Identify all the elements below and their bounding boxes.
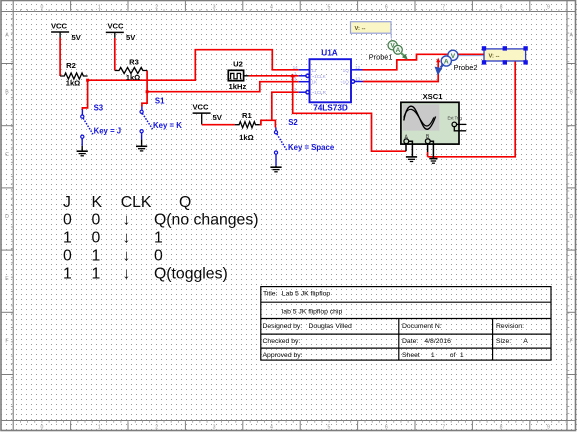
svg-text:V: --: V: -- xyxy=(355,26,366,32)
svg-text:S2: S2 xyxy=(288,118,298,127)
svg-text:VCC: VCC xyxy=(107,21,124,30)
wire VCC3 to R1 xyxy=(202,124,235,126)
svg-text:7: 7 xyxy=(442,5,445,11)
probe Probe1 icon xyxy=(369,41,408,62)
svg-text:0: 0 xyxy=(63,212,72,229)
svg-text:1kΩ: 1kΩ xyxy=(66,79,81,88)
svg-text:of: of xyxy=(450,352,456,359)
svg-text:Douglas Villed: Douglas Villed xyxy=(309,323,353,330)
svg-text:1K: 1K xyxy=(312,80,319,85)
svg-text:4: 4 xyxy=(270,5,273,11)
wire R2 junction down to S3 xyxy=(82,80,87,109)
svg-text:7: 7 xyxy=(442,424,445,430)
svg-text:0: 0 xyxy=(92,230,101,247)
svg-text:R3: R3 xyxy=(129,57,139,66)
svg-text:Sheet: Sheet xyxy=(402,352,420,359)
svg-text:14: 14 xyxy=(293,65,299,70)
svg-text:A: A xyxy=(5,33,9,39)
svg-text:3: 3 xyxy=(213,424,216,430)
svg-text:5V: 5V xyxy=(126,33,136,42)
svg-text:1: 1 xyxy=(98,424,101,430)
svg-text:A: A xyxy=(569,33,573,39)
svg-text:V: --: V: -- xyxy=(489,53,500,59)
svg-text:~1Q: ~1Q xyxy=(340,80,349,85)
switch S1 xyxy=(140,97,182,133)
scope B- to ground xyxy=(430,141,433,158)
resistor R3 xyxy=(115,57,147,81)
svg-text:Revision:: Revision: xyxy=(496,323,524,330)
wire J net: R2 junction to chip pin 1J xyxy=(88,50,299,80)
probe Probe2 readout box (selected) xyxy=(482,46,528,64)
svg-text:E: E xyxy=(5,276,9,282)
scope A- to ground xyxy=(409,141,413,157)
svg-text:1: 1 xyxy=(92,248,101,265)
probe Probe1 readout box xyxy=(351,22,392,39)
svg-text:1: 1 xyxy=(154,230,163,247)
svg-text:Ext Trig: Ext Trig xyxy=(448,116,463,121)
svg-text:Probe1: Probe1 xyxy=(369,52,393,61)
svg-text:1: 1 xyxy=(294,71,297,76)
svg-text:U2: U2 xyxy=(233,59,243,68)
svg-text:~1CLR: ~1CLR xyxy=(312,90,327,95)
wire K net: R3 down through junction to S1 xyxy=(142,70,147,106)
svg-text:0: 0 xyxy=(92,212,101,229)
switch S2 xyxy=(274,118,334,154)
svg-text:Q: Q xyxy=(179,194,191,211)
wire S3 to ground xyxy=(81,138,83,146)
svg-text:K: K xyxy=(92,194,103,211)
switch S3 xyxy=(81,104,121,139)
svg-text:F: F xyxy=(5,338,8,344)
svg-text:D: D xyxy=(569,214,573,220)
svg-text:S3: S3 xyxy=(94,104,104,113)
svg-text:~1CLK: ~1CLK xyxy=(312,74,327,79)
svg-text:S1: S1 xyxy=(155,97,165,106)
svg-text:XSC1: XSC1 xyxy=(423,92,444,101)
svg-text:lab 5 JK flipflop chip: lab 5 JK flipflop chip xyxy=(282,308,343,315)
ground G5 (scope B) xyxy=(429,159,437,164)
svg-text:E: E xyxy=(569,276,573,282)
svg-text:6: 6 xyxy=(385,424,388,430)
probe Probe2 icon xyxy=(435,50,484,75)
svg-text:5V: 5V xyxy=(72,33,82,42)
svg-text:↓: ↓ xyxy=(123,248,131,265)
svg-text:8: 8 xyxy=(500,424,503,430)
op chip U1A 74LS73D xyxy=(293,49,363,113)
svg-text:1J: 1J xyxy=(312,68,317,73)
svg-text:8: 8 xyxy=(500,5,503,11)
svg-text:Title:: Title: xyxy=(263,291,278,298)
truth table text xyxy=(63,194,259,283)
wire ~1Q net with dangling arrow xyxy=(363,62,438,82)
ground G4 (scope A) xyxy=(406,157,417,162)
svg-text:1: 1 xyxy=(63,230,72,247)
svg-text:R1: R1 xyxy=(242,111,252,120)
svg-text:Q(toggles): Q(toggles) xyxy=(154,265,228,282)
oscilloscope XSC1 xyxy=(401,92,466,144)
svg-text:3: 3 xyxy=(294,77,297,82)
svg-text:2: 2 xyxy=(155,424,158,430)
svg-text:Designed by:: Designed by: xyxy=(263,323,303,330)
svg-text:J: J xyxy=(63,194,71,211)
junction dot R2/J/S3 xyxy=(86,79,89,82)
svg-text:↓: ↓ xyxy=(123,212,131,229)
svg-text:A: A xyxy=(396,47,401,54)
svg-text:A: A xyxy=(444,58,449,65)
svg-text:5V: 5V xyxy=(213,113,223,122)
svg-text:Probe2: Probe2 xyxy=(454,63,478,72)
svg-text:0: 0 xyxy=(63,248,72,265)
svg-text:Key = J: Key = J xyxy=(94,127,122,136)
clock source U2 xyxy=(228,59,249,91)
svg-text:4/8/2016: 4/8/2016 xyxy=(424,338,451,345)
svg-text:Date:: Date: xyxy=(402,338,418,345)
svg-text:0: 0 xyxy=(40,424,43,430)
svg-text:B: B xyxy=(569,90,573,96)
svg-text:6: 6 xyxy=(385,5,388,11)
svg-text:A: A xyxy=(523,338,528,345)
scope A+ stub to CLK wire xyxy=(405,144,407,152)
svg-text:12: 12 xyxy=(355,65,361,70)
CLK tap arrow xyxy=(291,74,295,78)
ground G2 (S1) xyxy=(136,146,147,151)
svg-text:1kΩ: 1kΩ xyxy=(239,133,254,142)
svg-text:U1A: U1A xyxy=(321,49,337,58)
wire CLR net: chip pin 2 to R1/S2 node xyxy=(272,92,299,120)
svg-text:5: 5 xyxy=(327,5,330,11)
svg-text:1Q: 1Q xyxy=(343,68,350,73)
svg-text:1: 1 xyxy=(431,352,435,359)
svg-text:Document N:: Document N: xyxy=(402,323,442,330)
power VCC3 xyxy=(192,103,222,125)
svg-text:4: 4 xyxy=(270,424,273,430)
svg-text:Size:: Size: xyxy=(496,338,511,345)
scope B+ stub to Q wire xyxy=(427,144,429,152)
svg-text:74LS73D: 74LS73D xyxy=(313,104,348,113)
svg-text:V: V xyxy=(451,53,456,60)
svg-text:2: 2 xyxy=(155,5,158,11)
svg-text:2: 2 xyxy=(294,87,297,92)
svg-text:9: 9 xyxy=(547,424,550,430)
ground G1 (S3) xyxy=(77,151,88,156)
svg-text:↓: ↓ xyxy=(123,230,131,247)
svg-text:C: C xyxy=(569,152,573,158)
svg-text:1: 1 xyxy=(63,265,72,282)
svg-text:1kΩ: 1kΩ xyxy=(126,73,141,82)
svg-text:Key = Space: Key = Space xyxy=(288,143,335,152)
svg-text:Lab 5 JK flipflop: Lab 5 JK flipflop xyxy=(282,291,331,298)
svg-text:Q(no changes): Q(no changes) xyxy=(154,212,259,229)
wire VCC1 to R2 xyxy=(59,38,61,77)
power VCC2 xyxy=(106,21,136,42)
junction dot R3/K/S1 xyxy=(146,90,149,93)
svg-text:1kHz: 1kHz xyxy=(229,82,247,91)
wire K net: junction to chip pin 1K xyxy=(147,82,299,92)
svg-text:9: 9 xyxy=(547,5,550,11)
wire U2 output to chip CLK pin xyxy=(249,75,299,77)
wire VCC2 to R3 xyxy=(114,38,116,71)
svg-text:5: 5 xyxy=(327,424,330,430)
svg-text:C: C xyxy=(5,152,9,158)
ground G3 (S2) xyxy=(270,167,281,172)
svg-text:0: 0 xyxy=(40,5,43,11)
svg-text:1: 1 xyxy=(460,352,464,359)
wire CLK tap down to scope A xyxy=(293,77,406,151)
svg-text:↓: ↓ xyxy=(123,265,131,282)
svg-text:Approved by:: Approved by: xyxy=(263,352,303,359)
svg-text:R2: R2 xyxy=(66,61,76,70)
svg-text:Checked by:: Checked by: xyxy=(263,338,301,345)
svg-text:1: 1 xyxy=(98,5,101,11)
svg-text:F: F xyxy=(570,338,573,344)
svg-text:VCC: VCC xyxy=(51,21,68,30)
wire S2 to ground xyxy=(275,154,277,166)
resistor R2 xyxy=(60,61,88,87)
svg-text:CLK: CLK xyxy=(121,194,152,211)
svg-text:1: 1 xyxy=(92,265,101,282)
svg-text:D: D xyxy=(5,214,9,220)
svg-text:B: B xyxy=(5,90,9,96)
svg-text:VCC: VCC xyxy=(192,103,209,112)
svg-text:13: 13 xyxy=(355,77,361,82)
svg-text:0: 0 xyxy=(154,248,163,265)
wire R1 to S2 node xyxy=(260,120,276,127)
svg-text:Key = K: Key = K xyxy=(153,121,182,130)
title block xyxy=(261,287,551,361)
wire Q net: chip 1Q to probe/scope B riser xyxy=(363,54,516,157)
resistor R1 xyxy=(235,111,260,142)
power VCC1 xyxy=(51,21,82,42)
wire S1 to ground xyxy=(141,133,143,140)
svg-text:3: 3 xyxy=(213,5,216,11)
